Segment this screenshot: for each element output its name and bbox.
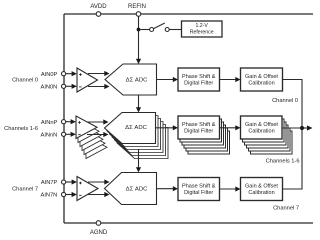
svg-text:Digital Filter: Digital Filter (184, 80, 213, 86)
svg-text:AIN7N: AIN7N (41, 193, 58, 199)
svg-text:Phase Shift &: Phase Shift & (182, 74, 216, 80)
svg-text:Phase Shift &: Phase Shift & (182, 183, 216, 189)
svg-text:Digital Filter: Digital Filter (184, 128, 213, 134)
svg-text:AIN7P: AIN7P (41, 180, 58, 186)
svg-text:Channel 7: Channel 7 (12, 187, 38, 193)
svg-text:Gain & Offset: Gain & Offset (245, 122, 278, 128)
svg-text:Gain & Offset: Gain & Offset (245, 183, 278, 189)
svg-text:Calibration: Calibration (248, 190, 274, 196)
svg-text:ΔΣ ADC: ΔΣ ADC (126, 186, 148, 192)
svg-text:AIN0P: AIN0P (41, 72, 58, 78)
svg-text:AVDD: AVDD (90, 4, 107, 10)
svg-text:Calibration: Calibration (248, 128, 274, 134)
svg-text:AIN0N: AIN0N (41, 84, 58, 90)
svg-text:Calibration: Calibration (248, 80, 274, 86)
svg-text:REFIN: REFIN (128, 4, 146, 10)
svg-text:Channels 1-6: Channels 1-6 (266, 158, 300, 164)
svg-text:AGND: AGND (90, 230, 108, 236)
svg-text:AINnN: AINnN (41, 133, 58, 139)
svg-text:ΔΣ ADC: ΔΣ ADC (125, 125, 147, 131)
svg-text:Channel 0: Channel 0 (272, 98, 298, 104)
svg-text:AINnP: AINnP (41, 120, 58, 126)
svg-text:ΔΣ ADC: ΔΣ ADC (126, 77, 148, 83)
svg-text:Phase Shift &: Phase Shift & (182, 122, 216, 128)
svg-text:Channels 1-6: Channels 1-6 (4, 126, 38, 132)
svg-text:Gain & Offset: Gain & Offset (245, 74, 278, 80)
svg-text:Channel 0: Channel 0 (12, 78, 38, 84)
svg-text:Reference: Reference (190, 30, 214, 36)
svg-text:1.2-V: 1.2-V (195, 23, 208, 29)
svg-text:Channel 7: Channel 7 (273, 205, 299, 211)
svg-text:Digital Filter: Digital Filter (184, 190, 213, 196)
